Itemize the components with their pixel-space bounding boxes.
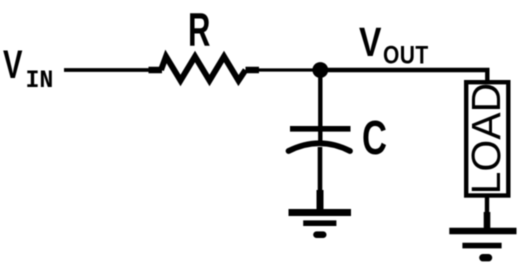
svg-text:R: R [188,5,210,57]
svg-text:LOAD: LOAD [463,83,509,195]
node junction dot [312,62,328,78]
resistor R [149,57,260,81]
load (LOAD box) [463,82,509,195]
ground (below capacitor) [289,213,352,235]
svg-text:V: V [359,19,381,65]
svg-text:IN: IN [26,67,54,95]
svg-text:V: V [3,43,23,88]
wire from node to LOAD [320,70,487,81]
svg-text:OUT: OUT [383,41,429,69]
capacitor C upper lead wire [318,70,322,141]
capacitor C [289,129,351,151]
svg-text:C: C [362,110,387,164]
net label VOUT [359,19,429,69]
wire from VIN to resistor R [64,68,150,72]
capacitor C lower lead wire [318,147,323,210]
wire from resistor to output node [259,68,315,71]
net label VIN [3,43,53,95]
wire from LOAD to ground [485,198,489,230]
ground (below LOAD) [449,231,516,258]
